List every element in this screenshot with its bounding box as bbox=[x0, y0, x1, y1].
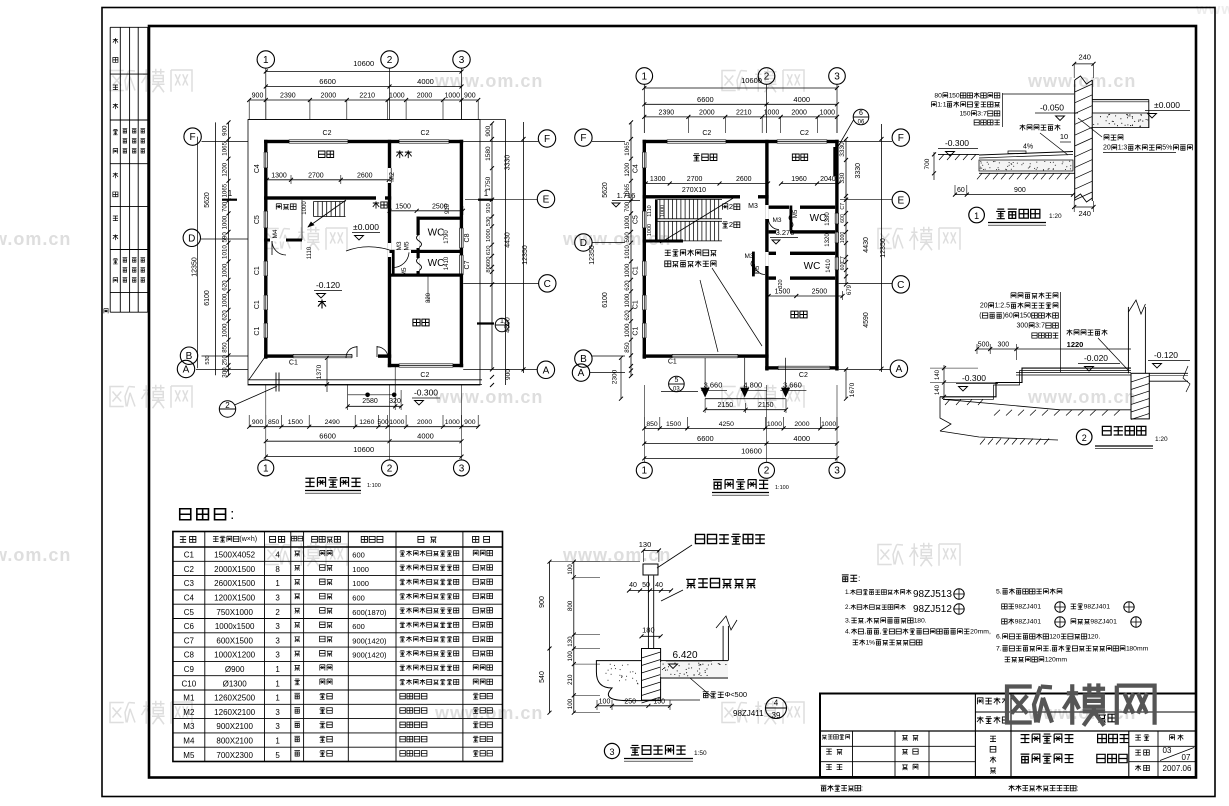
svg-text:1500: 1500 bbox=[288, 419, 303, 426]
svg-text:C2: C2 bbox=[184, 565, 195, 574]
d2 under-slab and soil bbox=[943, 399, 1131, 410]
svg-text:.: . bbox=[849, 629, 851, 636]
svg-text:C1: C1 bbox=[254, 300, 261, 309]
svg-text:3: 3 bbox=[275, 651, 280, 660]
svg-text:850: 850 bbox=[646, 421, 658, 428]
svg-text:1000: 1000 bbox=[840, 232, 846, 244]
plan1 stairs bbox=[314, 201, 346, 203]
svg-text:39: 39 bbox=[772, 711, 781, 720]
d1 title bbox=[969, 207, 985, 223]
plan2 bottom walls bbox=[643, 354, 672, 357]
svg-text:C1: C1 bbox=[633, 266, 640, 275]
svg-text:2700: 2700 bbox=[308, 172, 324, 179]
svg-text:540: 540 bbox=[539, 671, 546, 683]
plan2 bottom dimension block bbox=[644, 427, 837, 429]
svg-text:1: 1 bbox=[275, 579, 280, 588]
svg-text:Ø1300: Ø1300 bbox=[223, 679, 248, 688]
svg-text:1500: 1500 bbox=[395, 203, 411, 210]
svg-text:850: 850 bbox=[268, 419, 280, 426]
svg-text:3: 3 bbox=[275, 708, 280, 717]
svg-text::: : bbox=[1076, 783, 1078, 792]
svg-text:1: 1 bbox=[1106, 604, 1110, 611]
svg-text:,: , bbox=[989, 629, 991, 636]
svg-text:900X2100: 900X2100 bbox=[216, 722, 253, 731]
svg-text:,: , bbox=[1049, 646, 1051, 653]
svg-text:10600: 10600 bbox=[741, 76, 762, 85]
svg-text:www.om.cn: www.om.cn bbox=[1027, 71, 1136, 91]
svg-text:500: 500 bbox=[978, 342, 990, 349]
svg-text:800X2100: 800X2100 bbox=[216, 737, 253, 746]
svg-text:1200: 1200 bbox=[624, 162, 631, 176]
plan1 left dimension block bbox=[184, 128, 201, 145]
svg-text:-0.300: -0.300 bbox=[962, 373, 986, 383]
svg-text:60: 60 bbox=[957, 187, 965, 194]
svg-text:C2: C2 bbox=[421, 130, 430, 137]
svg-text:1000: 1000 bbox=[389, 93, 405, 100]
svg-text:900: 900 bbox=[464, 419, 476, 426]
svg-text:m: m bbox=[1143, 646, 1149, 653]
plan1 hall dims 1500 2500 bbox=[390, 210, 463, 212]
plan2 detail mark 6 with leader bbox=[853, 109, 869, 125]
d3 embed plate label bbox=[703, 690, 747, 699]
svg-text:,: , bbox=[864, 629, 866, 636]
d2 140 dims bbox=[943, 365, 945, 399]
svg-text:1: 1 bbox=[275, 665, 280, 674]
svg-text:1260X2100: 1260X2100 bbox=[214, 708, 255, 717]
svg-text:130: 130 bbox=[567, 636, 574, 647]
svg-text:03: 03 bbox=[1163, 746, 1172, 755]
svg-text:1320: 1320 bbox=[825, 233, 831, 247]
svg-text:0: 0 bbox=[956, 93, 960, 100]
svg-text:www.om.cn: www.om.cn bbox=[434, 387, 543, 407]
svg-text:www.om.cn: www.om.cn bbox=[0, 545, 71, 565]
svg-text:600: 600 bbox=[840, 214, 846, 223]
svg-text:www.om.cn: www.om.cn bbox=[562, 229, 671, 249]
svg-text:www.om.cn: www.om.cn bbox=[1027, 703, 1136, 723]
svg-text:2580: 2580 bbox=[362, 398, 378, 405]
svg-text:.: . bbox=[1000, 646, 1002, 653]
svg-text:2: 2 bbox=[764, 71, 770, 82]
svg-text:0: 0 bbox=[984, 303, 988, 310]
svg-text:3: 3 bbox=[275, 722, 280, 731]
svg-text:1000: 1000 bbox=[222, 293, 229, 307]
svg-text:C1: C1 bbox=[289, 360, 298, 367]
svg-text:M4: M4 bbox=[183, 737, 195, 746]
svg-text:2: 2 bbox=[387, 55, 393, 66]
svg-text:.: . bbox=[1000, 634, 1002, 641]
svg-text:679: 679 bbox=[847, 284, 853, 295]
svg-text:2007.06: 2007.06 bbox=[1163, 764, 1192, 773]
svg-text:-0.120: -0.120 bbox=[1154, 350, 1178, 360]
svg-text:,: , bbox=[864, 618, 866, 625]
svg-text:www.om.cn: www.om.cn bbox=[434, 71, 543, 91]
svg-text:1: 1 bbox=[500, 318, 504, 325]
svg-text:1200X1500: 1200X1500 bbox=[214, 594, 255, 603]
plan1 section bubble 1 right bbox=[477, 322, 494, 324]
svg-text:www.om.cn: www.om.cn bbox=[1027, 387, 1136, 407]
d1 joint label bbox=[1020, 124, 1061, 130]
svg-text::: : bbox=[858, 573, 860, 583]
svg-text:-0.300: -0.300 bbox=[945, 138, 969, 148]
svg-text:2: 2 bbox=[1082, 433, 1087, 443]
svg-text:1000X1200: 1000X1200 bbox=[214, 651, 255, 660]
svg-text:1: 1 bbox=[275, 679, 280, 688]
svg-text:600: 600 bbox=[840, 262, 846, 271]
svg-text:.: . bbox=[849, 618, 851, 625]
plan1 porch lines bbox=[248, 379, 482, 381]
svg-text:2: 2 bbox=[275, 608, 280, 617]
svg-text:1410: 1410 bbox=[444, 256, 450, 270]
svg-text:1220: 1220 bbox=[1067, 340, 1084, 349]
svg-text:0: 0 bbox=[1024, 323, 1028, 330]
plan1 WC door squiggles bbox=[417, 235, 422, 248]
svg-text:1000: 1000 bbox=[445, 419, 460, 426]
svg-text:1200: 1200 bbox=[222, 162, 229, 176]
svg-text:M5: M5 bbox=[404, 241, 411, 250]
d2 note block bbox=[1011, 292, 1058, 298]
svg-text:10600: 10600 bbox=[353, 445, 374, 454]
svg-text:2: 2 bbox=[764, 466, 770, 477]
svg-text:4000: 4000 bbox=[793, 434, 810, 443]
svg-text:M3: M3 bbox=[744, 253, 753, 260]
svg-text:C1: C1 bbox=[633, 327, 640, 336]
svg-text:M1: M1 bbox=[183, 694, 195, 703]
svg-text:3330: 3330 bbox=[505, 155, 512, 171]
svg-text:4%: 4% bbox=[1023, 144, 1033, 151]
svg-text:1000: 1000 bbox=[389, 419, 404, 426]
svg-text:0: 0 bbox=[1027, 313, 1031, 320]
svg-text:3: 3 bbox=[459, 463, 465, 474]
plan1 kitchen interior dims bbox=[267, 179, 389, 181]
plan2 bedroom2 dims bbox=[769, 295, 843, 297]
svg-text:www.om.cn: www.om.cn bbox=[0, 229, 71, 249]
svg-text:1:100: 1:100 bbox=[367, 483, 381, 489]
svg-text:C7: C7 bbox=[184, 636, 195, 645]
d3 title bbox=[604, 743, 619, 758]
svg-text:1:20: 1:20 bbox=[1049, 213, 1062, 220]
big gray watermark over title block bbox=[1007, 687, 1052, 723]
plan1 detail mark 2 bbox=[219, 401, 235, 417]
svg-text:1000: 1000 bbox=[444, 93, 460, 100]
svg-text:2: 2 bbox=[729, 220, 733, 229]
svg-text:6.420: 6.420 bbox=[672, 650, 697, 661]
svg-text:6600: 6600 bbox=[319, 77, 336, 86]
svg-text:4430: 4430 bbox=[505, 232, 512, 248]
svg-text:1: 1 bbox=[275, 694, 280, 703]
svg-text:8: 8 bbox=[275, 565, 280, 574]
svg-text:1:50: 1:50 bbox=[694, 750, 707, 757]
svg-text:620: 620 bbox=[222, 280, 229, 291]
svg-text:1065: 1065 bbox=[624, 141, 631, 155]
svg-text:1410: 1410 bbox=[826, 259, 832, 273]
svg-text:900: 900 bbox=[505, 369, 512, 380]
svg-text:M3: M3 bbox=[772, 217, 781, 224]
svg-text:2000: 2000 bbox=[791, 109, 807, 116]
svg-text:2000: 2000 bbox=[321, 93, 337, 100]
svg-text:A: A bbox=[896, 364, 903, 375]
svg-text:1: 1 bbox=[1037, 604, 1041, 611]
plan1 room labels and levels bbox=[319, 151, 334, 157]
svg-text:-0.300: -0.300 bbox=[414, 388, 438, 398]
svg-text:M3: M3 bbox=[748, 203, 758, 210]
inner drawing frame bbox=[149, 26, 1196, 778]
svg-text:98ZJ411: 98ZJ411 bbox=[733, 709, 764, 718]
svg-text:2490: 2490 bbox=[325, 419, 340, 426]
svg-text:590: 590 bbox=[624, 232, 631, 243]
svg-text:250: 250 bbox=[624, 698, 636, 705]
svg-text:1260: 1260 bbox=[359, 419, 374, 426]
svg-text:1000: 1000 bbox=[486, 229, 492, 242]
svg-text:850: 850 bbox=[624, 342, 631, 353]
svg-text:5620: 5620 bbox=[204, 192, 211, 208]
svg-text:4250: 4250 bbox=[719, 421, 734, 428]
d2 steps bbox=[940, 368, 1131, 397]
svg-text:1000: 1000 bbox=[624, 215, 631, 229]
plan2 left axis bubbles bbox=[575, 129, 592, 146]
plan1 title bbox=[305, 478, 360, 488]
svg-text:0: 0 bbox=[938, 93, 942, 100]
svg-text:600: 600 bbox=[486, 257, 492, 267]
svg-text:600: 600 bbox=[352, 622, 365, 631]
svg-text:0: 0 bbox=[1107, 145, 1111, 152]
svg-text:1000: 1000 bbox=[302, 201, 308, 215]
notes (shuoming) bbox=[842, 573, 861, 583]
svg-text:M5: M5 bbox=[755, 265, 761, 274]
svg-text:1: 1 bbox=[263, 463, 269, 474]
svg-text:300: 300 bbox=[997, 342, 1009, 349]
d2 dims 500 300 1220 bbox=[977, 348, 1016, 350]
svg-text:900: 900 bbox=[252, 93, 264, 100]
svg-text:3: 3 bbox=[275, 622, 280, 631]
svg-text:10600: 10600 bbox=[353, 59, 374, 68]
svg-text:4.800: 4.800 bbox=[743, 380, 762, 389]
svg-text:2700: 2700 bbox=[687, 176, 703, 183]
plan2 railing note bbox=[665, 249, 717, 256]
svg-text:C5: C5 bbox=[184, 608, 195, 617]
svg-text:6: 6 bbox=[859, 110, 863, 117]
svg-text:600X1500: 600X1500 bbox=[216, 636, 253, 645]
svg-text:320: 320 bbox=[426, 292, 432, 303]
svg-text:2040: 2040 bbox=[820, 176, 836, 183]
svg-text:C9: C9 bbox=[184, 665, 195, 674]
svg-text::: : bbox=[230, 507, 234, 523]
svg-text:2300: 2300 bbox=[611, 369, 618, 384]
svg-text:M5: M5 bbox=[183, 751, 195, 760]
svg-text:1000: 1000 bbox=[352, 579, 369, 588]
svg-text:C2: C2 bbox=[420, 372, 429, 379]
plan1 WC block bbox=[417, 217, 463, 220]
svg-text:C8: C8 bbox=[184, 651, 195, 660]
svg-text:2390: 2390 bbox=[659, 109, 675, 116]
svg-text:C: C bbox=[544, 279, 551, 290]
svg-text:C5: C5 bbox=[633, 215, 640, 224]
svg-text:1: 1 bbox=[642, 466, 648, 477]
svg-text:5: 5 bbox=[674, 377, 678, 384]
svg-text:900: 900 bbox=[485, 125, 492, 136]
svg-text:C3: C3 bbox=[184, 579, 195, 588]
svg-text:40: 40 bbox=[629, 582, 637, 589]
svg-text:±0.000: ±0.000 bbox=[1154, 100, 1180, 110]
plan1 top dimension block bbox=[257, 51, 274, 68]
svg-text:12350: 12350 bbox=[522, 245, 529, 265]
plan1 interior walls bbox=[388, 140, 391, 367]
svg-text:1500: 1500 bbox=[775, 289, 791, 296]
svg-text:100: 100 bbox=[599, 698, 611, 705]
svg-text:3: 3 bbox=[1123, 145, 1127, 152]
svg-text:1:100: 1:100 bbox=[775, 485, 789, 491]
svg-text:0: 0 bbox=[1009, 313, 1013, 320]
plan1 bottom dimension block bbox=[249, 426, 478, 428]
svg-text:1000: 1000 bbox=[647, 224, 653, 236]
svg-text:3: 3 bbox=[275, 636, 280, 645]
svg-text:900: 900 bbox=[1014, 187, 1026, 194]
plan1 boundary bbox=[248, 120, 480, 386]
svg-text:2000: 2000 bbox=[417, 419, 432, 426]
svg-text:4000: 4000 bbox=[417, 77, 434, 86]
svg-text:-0.050: -0.050 bbox=[1040, 103, 1064, 113]
svg-text:C2: C2 bbox=[702, 130, 711, 137]
svg-text:www.om.cn: www.om.cn bbox=[562, 545, 671, 565]
plan2 stairs bbox=[658, 198, 723, 200]
svg-text:800: 800 bbox=[567, 600, 574, 611]
svg-text:10600: 10600 bbox=[741, 447, 762, 456]
svg-text:-0.120: -0.120 bbox=[316, 280, 340, 290]
svg-text:M5: M5 bbox=[401, 267, 408, 276]
svg-text:): ) bbox=[255, 536, 257, 543]
svg-text:600(1870): 600(1870) bbox=[352, 608, 387, 617]
svg-text:150: 150 bbox=[653, 698, 665, 705]
d3 left curved cornice bbox=[596, 661, 641, 701]
svg-text:D: D bbox=[188, 233, 195, 244]
svg-text:610: 610 bbox=[486, 245, 492, 255]
svg-text:C2: C2 bbox=[800, 130, 809, 137]
svg-text:1: 1 bbox=[263, 55, 269, 66]
svg-text:2000: 2000 bbox=[794, 421, 809, 428]
plan2 interior wall bbox=[765, 140, 768, 371]
svg-text:2210: 2210 bbox=[359, 93, 375, 100]
svg-text:C8: C8 bbox=[464, 233, 471, 242]
svg-text:M4: M4 bbox=[272, 229, 279, 238]
d1 right floor slab bbox=[1092, 99, 1149, 101]
svg-text:3: 3 bbox=[834, 466, 840, 477]
svg-text:M2: M2 bbox=[389, 172, 396, 182]
svg-text:M3: M3 bbox=[396, 241, 403, 250]
d2 right floor slab bbox=[1149, 372, 1188, 374]
svg-text:D: D bbox=[580, 238, 587, 249]
plan2 WC rooms bbox=[769, 206, 789, 209]
svg-text:1370: 1370 bbox=[316, 364, 323, 379]
svg-text:2600X1500: 2600X1500 bbox=[214, 579, 255, 588]
svg-text:700X2300: 700X2300 bbox=[216, 751, 253, 760]
plan1 exterior walls bbox=[264, 140, 289, 143]
footer texts bbox=[821, 783, 863, 792]
svg-text:12350: 12350 bbox=[880, 238, 887, 258]
title block bbox=[820, 694, 1196, 778]
svg-text:530: 530 bbox=[205, 355, 211, 364]
svg-text:.: . bbox=[848, 604, 850, 611]
d1 apron slope bbox=[979, 152, 1073, 156]
svg-text:C1: C1 bbox=[633, 300, 640, 309]
svg-text:0: 0 bbox=[1056, 634, 1060, 641]
svg-text:12350: 12350 bbox=[589, 245, 596, 265]
svg-text:100: 100 bbox=[567, 651, 574, 662]
svg-text:2: 2 bbox=[729, 202, 733, 211]
svg-text:m: m bbox=[1061, 657, 1067, 664]
svg-text:3.660: 3.660 bbox=[783, 380, 802, 389]
svg-text:900(1420): 900(1420) bbox=[352, 651, 387, 660]
svg-text:F: F bbox=[580, 133, 586, 144]
svg-text:-0.020: -0.020 bbox=[1084, 353, 1108, 363]
svg-text:6600: 6600 bbox=[697, 95, 714, 104]
svg-text:.: . bbox=[925, 618, 927, 625]
svg-text:900: 900 bbox=[222, 125, 229, 136]
d2 title bbox=[1076, 429, 1092, 445]
d3 detail circle 4/39 bbox=[766, 698, 787, 719]
svg-text:1: 1 bbox=[943, 102, 947, 109]
svg-text:3330: 3330 bbox=[839, 142, 846, 157]
svg-text:6600: 6600 bbox=[697, 434, 714, 443]
svg-text:1000: 1000 bbox=[352, 565, 369, 574]
svg-text:C6: C6 bbox=[184, 622, 195, 631]
svg-text:1960: 1960 bbox=[791, 176, 807, 183]
svg-text:1: 1 bbox=[1037, 619, 1041, 626]
svg-text:1010: 1010 bbox=[624, 245, 631, 259]
svg-text:1000: 1000 bbox=[222, 215, 229, 229]
svg-text:M2: M2 bbox=[183, 708, 195, 717]
svg-text:3.270: 3.270 bbox=[776, 228, 795, 237]
svg-text:4430: 4430 bbox=[863, 237, 870, 253]
svg-text:530: 530 bbox=[486, 217, 492, 227]
svg-text:1010: 1010 bbox=[222, 245, 229, 259]
plan2 mahjong room bottom wall bbox=[643, 195, 740, 198]
svg-text:2210: 2210 bbox=[736, 109, 752, 116]
svg-text:140: 140 bbox=[935, 369, 941, 380]
svg-text:3: 3 bbox=[459, 55, 465, 66]
svg-text:40: 40 bbox=[655, 582, 663, 589]
svg-text:98ZJ513: 98ZJ513 bbox=[913, 589, 952, 600]
svg-text:C7: C7 bbox=[464, 260, 471, 269]
svg-text:WC: WC bbox=[428, 258, 445, 269]
svg-text:100: 100 bbox=[567, 698, 574, 709]
d2 joint label bbox=[1067, 329, 1108, 335]
svg-text:1300: 1300 bbox=[650, 176, 666, 183]
svg-text:F: F bbox=[190, 132, 196, 143]
watermark tiles bbox=[110, 71, 135, 91]
d3 bottom dims bbox=[597, 705, 670, 707]
svg-text:1380: 1380 bbox=[825, 212, 831, 226]
svg-text::: : bbox=[861, 783, 863, 792]
svg-text:1000: 1000 bbox=[624, 293, 631, 307]
svg-text:1000: 1000 bbox=[624, 323, 631, 337]
svg-text:1000: 1000 bbox=[764, 109, 780, 116]
svg-text:620: 620 bbox=[222, 310, 229, 321]
svg-text:4000: 4000 bbox=[793, 95, 810, 104]
svg-text:1500: 1500 bbox=[666, 421, 681, 428]
svg-text:1: 1 bbox=[484, 189, 489, 198]
plan2 top dimension block bbox=[636, 68, 653, 85]
plan1 1370 dim bbox=[326, 358, 328, 392]
d3 balcony slab bbox=[642, 649, 661, 701]
svg-text:07: 07 bbox=[1182, 753, 1191, 762]
plan1 hall door swing curve bbox=[346, 247, 390, 251]
svg-text:7: 7 bbox=[1041, 323, 1045, 330]
svg-text:2000X1500: 2000X1500 bbox=[214, 565, 255, 574]
svg-text:1000: 1000 bbox=[821, 421, 836, 428]
svg-text:6600: 6600 bbox=[319, 432, 336, 441]
svg-text:3.660: 3.660 bbox=[704, 380, 723, 389]
svg-text:WC: WC bbox=[810, 213, 827, 224]
svg-text:A: A bbox=[183, 365, 190, 376]
